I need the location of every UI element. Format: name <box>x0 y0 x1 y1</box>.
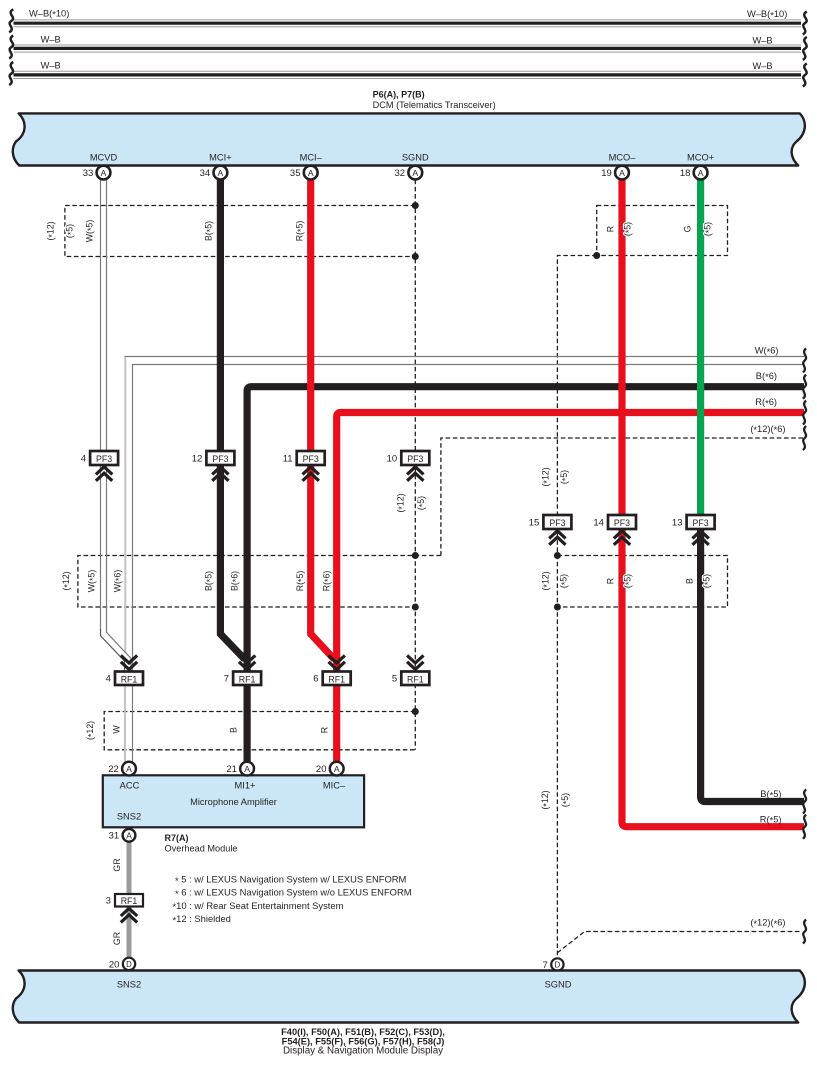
wire W(*6) band outlines <box>125 357 805 673</box>
pin 20 A circle (MIC-) <box>316 762 344 776</box>
wire B(*5) black from PF3 13 down, turning right to right edge <box>701 522 804 802</box>
pin 33 A circle (MCVD) <box>83 166 111 180</box>
svg-text:W(*6): W(*6) <box>113 570 124 593</box>
svg-text:MCVD: MCVD <box>90 152 118 162</box>
pin 22 A circle (ACC) <box>108 762 136 776</box>
svg-text:10: 10 <box>387 453 398 464</box>
svg-text:19: 19 <box>601 168 612 179</box>
connector RF1 pin 6 <box>313 655 350 685</box>
svg-text:(*12): (*12) <box>396 493 407 512</box>
wire break squiggle W-B(*10) right <box>803 12 807 35</box>
svg-text:R: R <box>606 578 616 584</box>
svg-text:B(*5): B(*5) <box>204 221 215 241</box>
bus wire W-B (second) <box>14 35 802 52</box>
svg-text:(*5): (*5) <box>559 574 570 588</box>
vertical wire labels, box 2 region <box>61 570 333 593</box>
connector PF3 pin 12 <box>192 451 235 481</box>
wire R(*5) red from pin 35 MCI- down through PF3 11, diagonal merging into RF1 6 <box>311 180 335 660</box>
wire break squiggle B(*5) right <box>803 790 806 814</box>
svg-text:7: 7 <box>543 960 548 971</box>
svg-text:15: 15 <box>529 517 540 528</box>
vertical wire labels, box 3 region <box>85 721 330 740</box>
svg-text:PF3: PF3 <box>96 454 112 464</box>
svg-text:12: 12 <box>192 453 203 464</box>
svg-text:B(*5): B(*5) <box>204 571 215 591</box>
wire break squiggle W(*6) right <box>803 348 806 372</box>
svg-text:(*12)(*6): (*12)(*6) <box>750 424 785 435</box>
svg-text:G: G <box>683 225 693 232</box>
svg-text:21: 21 <box>226 764 237 775</box>
svg-text:W–B: W–B <box>752 61 772 71</box>
svg-text:3: 3 <box>106 896 111 907</box>
wire R(*6) red, horizontal from right edge turning down to connector RF1 6 <box>337 413 804 674</box>
svg-text:(*12): (*12) <box>540 790 551 809</box>
svg-text:A: A <box>619 168 625 178</box>
shield wire (*12)(*6) dashed branch diagonal to right edge <box>557 932 802 953</box>
svg-text:33: 33 <box>83 168 94 179</box>
svg-text:(*12): (*12) <box>61 571 72 590</box>
connector PF3 pin 10 <box>387 451 430 481</box>
connector PF3 pin 4 <box>81 451 118 481</box>
wire break squiggle W-B second right <box>803 37 807 60</box>
svg-text:11: 11 <box>283 453 293 464</box>
wire W(*5) band outlines <box>101 180 107 630</box>
connector RF1 pin 3 <box>106 894 143 922</box>
connector bar P6(A),P7(B) DCM (Telematics Transceiver) <box>13 89 805 165</box>
svg-text:34: 34 <box>200 168 211 179</box>
svg-text:20: 20 <box>109 959 120 970</box>
svg-text:W(*5): W(*5) <box>87 570 98 593</box>
svg-text:* 6 : w/ LEXUS Navigation Syst: * 6 : w/ LEXUS Navigation System w/o LEX… <box>175 887 412 899</box>
svg-text:18: 18 <box>680 168 691 179</box>
bus wire W-B (third) <box>14 60 802 78</box>
junction dot box5 top left <box>554 552 561 559</box>
pin 7 D circle (SGND bottom) <box>543 958 564 971</box>
svg-text:SGND: SGND <box>402 152 429 162</box>
junction dot box2 top at SGND line <box>412 552 419 559</box>
shield drain SGND dashed wire from pin 32 down through PF3 10 and RF1 5 to shield box 3 <box>414 180 416 750</box>
wire W(*5) white band fill from pin 33 MCVD down through PF3 4 <box>101 180 107 630</box>
svg-text:SNS2: SNS2 <box>117 979 141 989</box>
wire W white band fill from RF1 4 down to pin 22 ACC <box>125 685 133 762</box>
svg-text:A: A <box>412 168 418 178</box>
svg-text:*10 : w/ Rear Seat Entertainme: *10 : w/ Rear Seat Entertainment System <box>173 900 344 912</box>
svg-text:RF1: RF1 <box>239 675 256 685</box>
svg-text:RF1: RF1 <box>407 675 424 685</box>
svg-text:6: 6 <box>313 674 318 685</box>
svg-text:P6(A), P7(B): P6(A), P7(B) <box>373 89 425 99</box>
svg-text:A: A <box>218 168 224 178</box>
svg-text:(*5): (*5) <box>416 496 427 510</box>
svg-text:W–B: W–B <box>752 35 772 45</box>
connector PF3 pin 15 <box>529 515 572 545</box>
junction dot box1 top right <box>412 202 419 209</box>
label R7(A) Overhead Module <box>165 833 238 854</box>
pin 31 A circle (SNS2 out) <box>109 829 136 842</box>
svg-text:B(*6): B(*6) <box>230 571 241 591</box>
svg-text:Display & Navigation Module Di: Display & Navigation Module Display <box>283 1045 443 1056</box>
vertical wire labels, box 1 region <box>46 220 306 243</box>
svg-text:(*5): (*5) <box>559 470 570 484</box>
svg-text:Microphone Amplifier: Microphone Amplifier <box>190 797 277 807</box>
svg-text:MCO+: MCO+ <box>687 152 714 162</box>
svg-text:(*5): (*5) <box>703 222 714 236</box>
svg-text:B: B <box>685 578 695 584</box>
svg-text:*12 : Shielded: *12 : Shielded <box>173 913 231 925</box>
svg-text:A: A <box>308 168 314 178</box>
wire GR gray from pin 31 down through RF1 3 to pin 20 SNS2 <box>127 842 132 958</box>
svg-text:35: 35 <box>290 168 301 179</box>
vertical labels on shield line above pin 7 SGND <box>540 790 571 809</box>
wire R red from RF1 6 down to pin 20 MIC- <box>333 685 340 762</box>
svg-text:(*12)(*6): (*12)(*6) <box>750 918 785 929</box>
svg-text:5: 5 <box>392 674 397 685</box>
wire B black from RF1 7 down to pin 21 MI1+ <box>244 685 251 762</box>
svg-text:MCI–: MCI– <box>300 152 323 162</box>
svg-text:A: A <box>334 764 340 774</box>
svg-text:22: 22 <box>108 764 119 775</box>
svg-text:A: A <box>126 764 132 774</box>
svg-text:13: 13 <box>672 517 683 528</box>
svg-text:R: R <box>320 727 330 733</box>
pin 18 A circle (MCO+) <box>680 166 708 180</box>
wire break squiggle R(*6) right <box>803 401 806 425</box>
wire break squiggle W-B(*10) left <box>9 9 13 32</box>
svg-text:GR: GR <box>112 858 122 871</box>
pin 21 A circle (MI1+) <box>226 762 254 776</box>
wire W lower band outlines <box>125 685 133 762</box>
svg-text:(*12): (*12) <box>541 467 552 486</box>
svg-text:(*5): (*5) <box>560 793 571 807</box>
shield box 2 dashed (middle left) <box>78 556 441 608</box>
svg-text:R(*6): R(*6) <box>755 397 777 408</box>
pin 19 A circle (MCO-) <box>601 166 629 180</box>
svg-text:MIC–: MIC– <box>323 780 346 790</box>
wire W(*5) diagonal band merging into RF1 4 <box>101 629 132 672</box>
svg-text:PF3: PF3 <box>614 518 630 528</box>
wire break squiggle B(*6) right <box>803 375 806 399</box>
microphone amplifier box R7 <box>103 775 364 827</box>
svg-text:D: D <box>555 961 561 970</box>
svg-text:A: A <box>698 168 704 178</box>
svg-text:PF3: PF3 <box>693 518 709 528</box>
svg-text:RF1: RF1 <box>121 675 138 685</box>
shield box 4 dashed (around MCO wires) <box>597 206 728 256</box>
pin 32 A circle (SGND) <box>395 166 423 180</box>
svg-text:31: 31 <box>109 831 120 842</box>
svg-text:W(*5): W(*5) <box>85 220 96 243</box>
svg-text:32: 32 <box>395 168 406 179</box>
svg-text:W–B: W–B <box>41 35 61 45</box>
wire R(*5) red from pin 19 MCO- down through PF3 14, turning right to right edge <box>622 180 804 827</box>
wire G(*5) green from pin 18 MCO+ down to PF3 13 <box>697 180 704 522</box>
svg-text:F40(I), F50(A), F51(B), F52(C): F40(I), F50(A), F51(B), F52(C), F53(D), <box>281 1027 445 1037</box>
connector PF3 pin 11 <box>283 451 325 481</box>
wire B(*5) black from pin 34 MCI+ down through PF3 12, diagonal merging into RF1 7 <box>220 180 244 660</box>
junction dot box5 bottom left <box>554 604 561 611</box>
svg-text:SNS2: SNS2 <box>117 812 141 822</box>
vertical labels on SGND line below PF3 10 <box>396 493 428 512</box>
shield wire dashed from box 4 corner left then down to pin 7 SGND <box>557 256 596 959</box>
svg-text:W–B(*10): W–B(*10) <box>29 8 69 19</box>
svg-text:GR: GR <box>112 932 122 945</box>
vertical wire labels, box 4 region <box>606 222 714 236</box>
bus wire W-B(*10) <box>14 8 802 27</box>
svg-text:14: 14 <box>593 517 604 528</box>
svg-text:ACC: ACC <box>120 780 140 790</box>
svg-text:4: 4 <box>81 453 86 464</box>
svg-text:R(*5): R(*5) <box>760 814 782 825</box>
connector RF1 pin 4 <box>106 655 143 685</box>
svg-text:DCM (Telematics Transceiver): DCM (Telematics Transceiver) <box>373 100 496 110</box>
pin 34 A circle (MCI+) <box>200 166 228 180</box>
svg-text:(*12): (*12) <box>46 221 57 240</box>
svg-text:R(*6): R(*6) <box>322 571 333 592</box>
legend notes <box>173 874 412 926</box>
svg-text:R(*5): R(*5) <box>295 221 306 242</box>
shield box 5 dashed (middle right) <box>557 556 727 608</box>
svg-text:SGND: SGND <box>545 979 572 989</box>
svg-text:R7(A): R7(A) <box>165 833 189 843</box>
junction dot box3 top right <box>412 708 419 715</box>
svg-text:RF1: RF1 <box>121 896 138 906</box>
svg-text:MCI+: MCI+ <box>209 152 231 162</box>
svg-text:Overhead Module: Overhead Module <box>165 843 238 853</box>
svg-text:R: R <box>606 226 616 232</box>
svg-text:W–B(*10): W–B(*10) <box>747 9 787 20</box>
wire break squiggle (*12)(*6) right <box>803 426 806 450</box>
wire break squiggle W-B third right <box>803 63 807 86</box>
svg-text:PF3: PF3 <box>407 454 423 464</box>
pin 35 A circle (MCI-) <box>290 166 318 180</box>
junction dot box4 bottom left <box>593 252 600 259</box>
connector RF1 pin 5 <box>392 655 429 685</box>
svg-text:MCO–: MCO– <box>609 152 637 162</box>
wire break squiggle (*12)(*6) right bottom <box>803 920 806 944</box>
svg-text:D: D <box>126 960 132 969</box>
svg-text:B(*6): B(*6) <box>756 371 777 382</box>
svg-text:A: A <box>244 764 250 774</box>
svg-text:(*12): (*12) <box>85 721 96 740</box>
shield box 1 dashed (around MCVD/MCI wires) <box>65 206 415 257</box>
junction dot box2 bottom at SGND line <box>412 604 419 611</box>
svg-text:W–B: W–B <box>41 60 61 70</box>
svg-text:B: B <box>229 727 239 733</box>
pin 20 D circle (SNS2 bottom) <box>109 958 135 971</box>
svg-text:(*5): (*5) <box>623 574 634 588</box>
svg-text:R(*5): R(*5) <box>295 571 306 592</box>
svg-text:A: A <box>101 168 107 178</box>
shield wire (*12)(*6) dashed, from right edge turning down to shield box 2 <box>441 438 803 556</box>
connector bar Display & Navigation Module Display <box>13 971 805 1023</box>
svg-text:MI1+: MI1+ <box>235 780 256 790</box>
wire break squiggle W-B third left <box>9 62 13 85</box>
svg-text:A: A <box>126 830 132 840</box>
wire break squiggle W-B second left <box>9 36 13 59</box>
wire B(*6) black, horizontal from right edge turning down to connector RF1 7 <box>247 387 804 673</box>
shield box 3 dashed (above microphone amplifier) <box>104 712 415 750</box>
svg-text:4: 4 <box>106 674 111 685</box>
svg-text:* 5 : w/ LEXUS Navigation Syst: * 5 : w/ LEXUS Navigation System w/ LEXU… <box>175 874 407 886</box>
connector RF1 pin 7 <box>224 655 261 685</box>
svg-text:RF1: RF1 <box>328 675 345 685</box>
vertical wire labels, box 5 region <box>541 571 713 590</box>
svg-text:(*5): (*5) <box>65 224 76 238</box>
svg-text:PF3: PF3 <box>303 454 319 464</box>
svg-text:7: 7 <box>224 674 229 685</box>
connector PF3 pin 14 <box>593 515 636 545</box>
wire W(*6) white band fill, horizontal from right edge turning down to connector RF1 4 <box>125 357 805 673</box>
vertical labels on shield line above PF3 15 <box>541 467 571 486</box>
wire break squiggle R(*5) right <box>803 815 806 839</box>
svg-text:(*5): (*5) <box>702 574 713 588</box>
svg-text:W(*6): W(*6) <box>755 346 779 357</box>
bottom title F40-F58 Display & Navigation Module Display <box>281 1027 445 1056</box>
junction dot box1 bottom right <box>412 253 419 260</box>
svg-text:(*12): (*12) <box>541 571 552 590</box>
svg-text:PF3: PF3 <box>549 518 565 528</box>
connector PF3 pin 13 <box>672 515 715 545</box>
svg-text:(*5): (*5) <box>623 222 634 236</box>
svg-text:20: 20 <box>316 764 327 775</box>
svg-text:B(*5): B(*5) <box>760 789 781 800</box>
svg-text:W: W <box>112 725 122 734</box>
svg-text:PF3: PF3 <box>212 454 228 464</box>
